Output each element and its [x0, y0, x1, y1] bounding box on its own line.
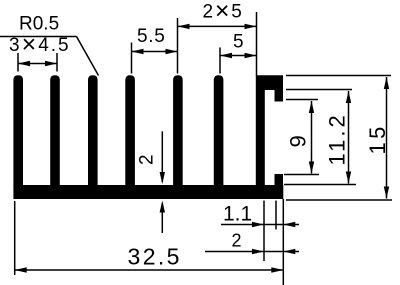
svg-text:32.5: 32.5 [128, 244, 182, 270]
ext line upstand top y174.5 [284, 174, 319, 176]
dim line 2x5 [178, 25, 257, 27]
ext line top face y75.5 [286, 75, 391, 77]
R0.5 leader diagonal [77, 37, 99, 76]
svg-text:5: 5 [233, 32, 244, 53]
fin 1 [13, 75, 23, 186]
ext line B (upstand left) [275, 201, 277, 230]
svg-text:9: 9 [286, 135, 311, 147]
svg-text:11.2: 11.2 [325, 112, 350, 165]
dim 2 upper line with down arrow [161, 131, 163, 182]
fin 6 [214, 75, 224, 186]
dim line 5 [220, 55, 257, 57]
fin 3 [88, 75, 98, 186]
fin 2 [50, 75, 60, 186]
ext line flange bottom y89.5 [286, 89, 352, 91]
dim line 3x4.5 [18, 63, 57, 65]
extension line fin6 [219, 48, 221, 74]
dim 2 lower line with up arrow [161, 203, 163, 233]
ext line A (channel mouth) [263, 201, 265, 262]
svg-text:1.1: 1.1 [223, 203, 252, 226]
extension line wall-left [256, 12, 258, 76]
svg-text:2×5: 2×5 [203, 0, 244, 25]
ext line C (right edge) [282, 199, 284, 285]
fin 4 [125, 75, 135, 186]
right wall: column + top flange + lip [256, 75, 283, 186]
ext line lip bottom y99.5 [286, 99, 318, 101]
ext line base bottom y200 [286, 199, 392, 201]
dim 32.5 [15, 269, 284, 271]
svg-text:5.5: 5.5 [137, 26, 166, 47]
dim 15 vertical [386, 77, 388, 199]
extension line fin5 [177, 18, 179, 74]
svg-text:2: 2 [137, 154, 158, 165]
bottom upstand [275, 174, 284, 186]
dim 2 bottom line [205, 251, 299, 253]
dim 1.1 line [221, 224, 299, 226]
extension line fin1 [17, 53, 19, 72]
dim line 5.5 [132, 51, 178, 53]
R0.5 leader horizontal [0, 36, 77, 38]
dim 11.2 vertical [348, 91, 350, 184]
extension line fin4 [131, 43, 133, 74]
svg-text:2: 2 [232, 231, 242, 251]
extension line fin2 [56, 53, 58, 72]
heatsink profile: base plate [13, 185, 283, 199]
ext line 32.5 left [14, 201, 16, 275]
svg-text:15: 15 [365, 123, 390, 154]
dim 9 vertical [311, 101, 313, 174]
fin 5 [173, 75, 183, 186]
ext line base top y184.5 [284, 184, 356, 186]
